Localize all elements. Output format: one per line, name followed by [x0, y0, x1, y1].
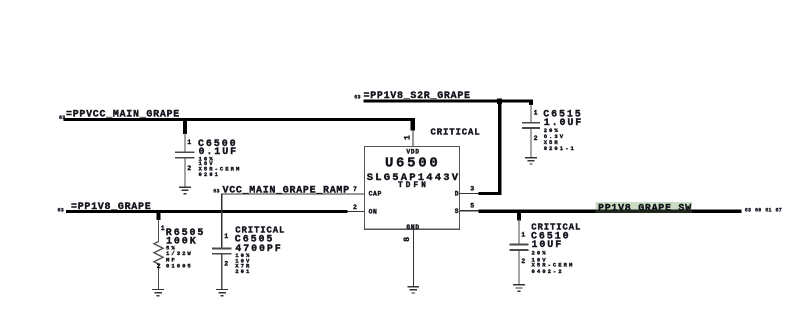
wire PP1V8_GRAPE horizontal — [66, 210, 348, 213]
svg-text:1: 1 — [534, 110, 538, 117]
capacitor C6510 lead bottom — [518, 251, 519, 285]
wire D pin thin lead — [460, 193, 479, 194]
node PP1V8_GRAPE_SW highlight — [595, 202, 692, 213]
svg-text:VCC_MAIN_GRAPE_RAMP: VCC_MAIN_GRAPE_RAMP — [223, 185, 350, 196]
svg-text:63: 63 — [213, 188, 220, 194]
wire PP1V8_S2R_GRAPE horizontal — [364, 99, 534, 102]
svg-text:2: 2 — [521, 258, 525, 265]
ground U6500 GND — [407, 287, 419, 293]
wire vertical PP1V8_S2R down to D pin — [498, 99, 501, 195]
junction stub to R6505 — [156, 210, 160, 220]
svg-text:20%: 20% — [532, 249, 548, 256]
wire corner stub PPVCC to U6500 VDD — [411, 118, 415, 131]
svg-text:2: 2 — [187, 165, 191, 172]
wire PP1V8_GRAPE_SW horizontal — [479, 210, 742, 213]
svg-text:63: 63 — [354, 94, 361, 100]
svg-text:1: 1 — [403, 135, 412, 140]
svg-text:0402-2: 0402-2 — [532, 268, 564, 275]
svg-text:PP1V8_GRAPE_SW: PP1V8_GRAPE_SW — [598, 203, 692, 214]
wire GND pin 8 lead — [413, 229, 414, 286]
svg-text:2: 2 — [534, 135, 538, 142]
svg-text:2: 2 — [224, 260, 228, 267]
ground R6505 — [152, 290, 164, 296]
svg-text:CRITICAL: CRITICAL — [431, 128, 481, 138]
svg-text:TDFN: TDFN — [398, 181, 429, 190]
svg-text:61: 61 — [765, 208, 772, 214]
resistor R6505 lead bottom — [158, 264, 159, 289]
svg-text:8: 8 — [403, 237, 412, 242]
svg-text:1: 1 — [521, 232, 525, 239]
svg-text:2: 2 — [157, 263, 161, 270]
svg-text:5: 5 — [470, 202, 474, 209]
wire PPVCC_MAIN_GRAPE horizontal — [64, 118, 415, 121]
wire VCC_MAIN_GRAPE_RAMP horizontal to CAP pin 7 — [221, 193, 364, 194]
svg-text:67: 67 — [776, 208, 783, 214]
junction stub to C6500 — [183, 118, 187, 134]
svg-text:D: D — [455, 190, 459, 197]
svg-text:63: 63 — [745, 208, 752, 214]
capacitor C6510 lead top — [518, 219, 519, 245]
wire S pin thin lead — [460, 210, 479, 211]
wire thin lead to C6515 — [530, 104, 531, 123]
capacitor C6515 plates — [522, 123, 540, 128]
svg-text:1: 1 — [224, 233, 228, 240]
capacitor C6515 lead bottom — [530, 129, 531, 158]
svg-text:0201-1: 0201-1 — [544, 145, 576, 152]
ground C6505 — [216, 290, 228, 296]
svg-text:1: 1 — [187, 139, 191, 146]
wire thin lead to ON pin 2 — [348, 211, 365, 212]
resistor R6505 lead top — [158, 219, 159, 242]
ground C6515 — [525, 158, 537, 164]
capacitor C6505 plates — [212, 248, 231, 253]
ground C6500 — [179, 187, 191, 193]
junction stub to C6510 — [517, 210, 521, 221]
capacitor C6500 plates — [175, 152, 194, 157]
resistor R6505 zigzag — [154, 242, 163, 265]
svg-text:01005: 01005 — [166, 263, 193, 270]
svg-text:2: 2 — [353, 204, 357, 211]
svg-text:0201: 0201 — [199, 171, 220, 178]
svg-text:1: 1 — [161, 225, 165, 232]
wire PP1V8_GRAPE_SW under highlight — [595, 210, 692, 213]
svg-text:63: 63 — [58, 208, 65, 214]
ground C6510 — [513, 285, 525, 291]
capacitor C6500 lead top — [184, 133, 185, 152]
wire corner stub to C6515 — [529, 99, 533, 105]
capacitor C6500 lead bottom — [184, 159, 185, 187]
svg-text:7: 7 — [353, 186, 357, 193]
svg-text:201: 201 — [235, 268, 251, 275]
capacitor C6510 plates — [509, 245, 528, 250]
svg-text:S: S — [455, 208, 459, 215]
svg-text:60: 60 — [755, 208, 762, 214]
wire D pin thick segment — [479, 192, 502, 195]
svg-text:CAP: CAP — [369, 191, 382, 198]
capacitor C6505 lead bottom — [221, 255, 222, 290]
svg-text:3: 3 — [470, 186, 474, 193]
op-amp U6500 body — [365, 147, 460, 230]
svg-text:U6500: U6500 — [385, 156, 441, 172]
svg-text:ON: ON — [369, 209, 378, 216]
wire VCC_MAIN_GRAPE_RAMP vertical down to C6505 — [221, 193, 222, 248]
junction PP1V8_S2R to D vertical — [497, 98, 502, 104]
wire thin lead to VDD pin 1 — [412, 130, 413, 147]
